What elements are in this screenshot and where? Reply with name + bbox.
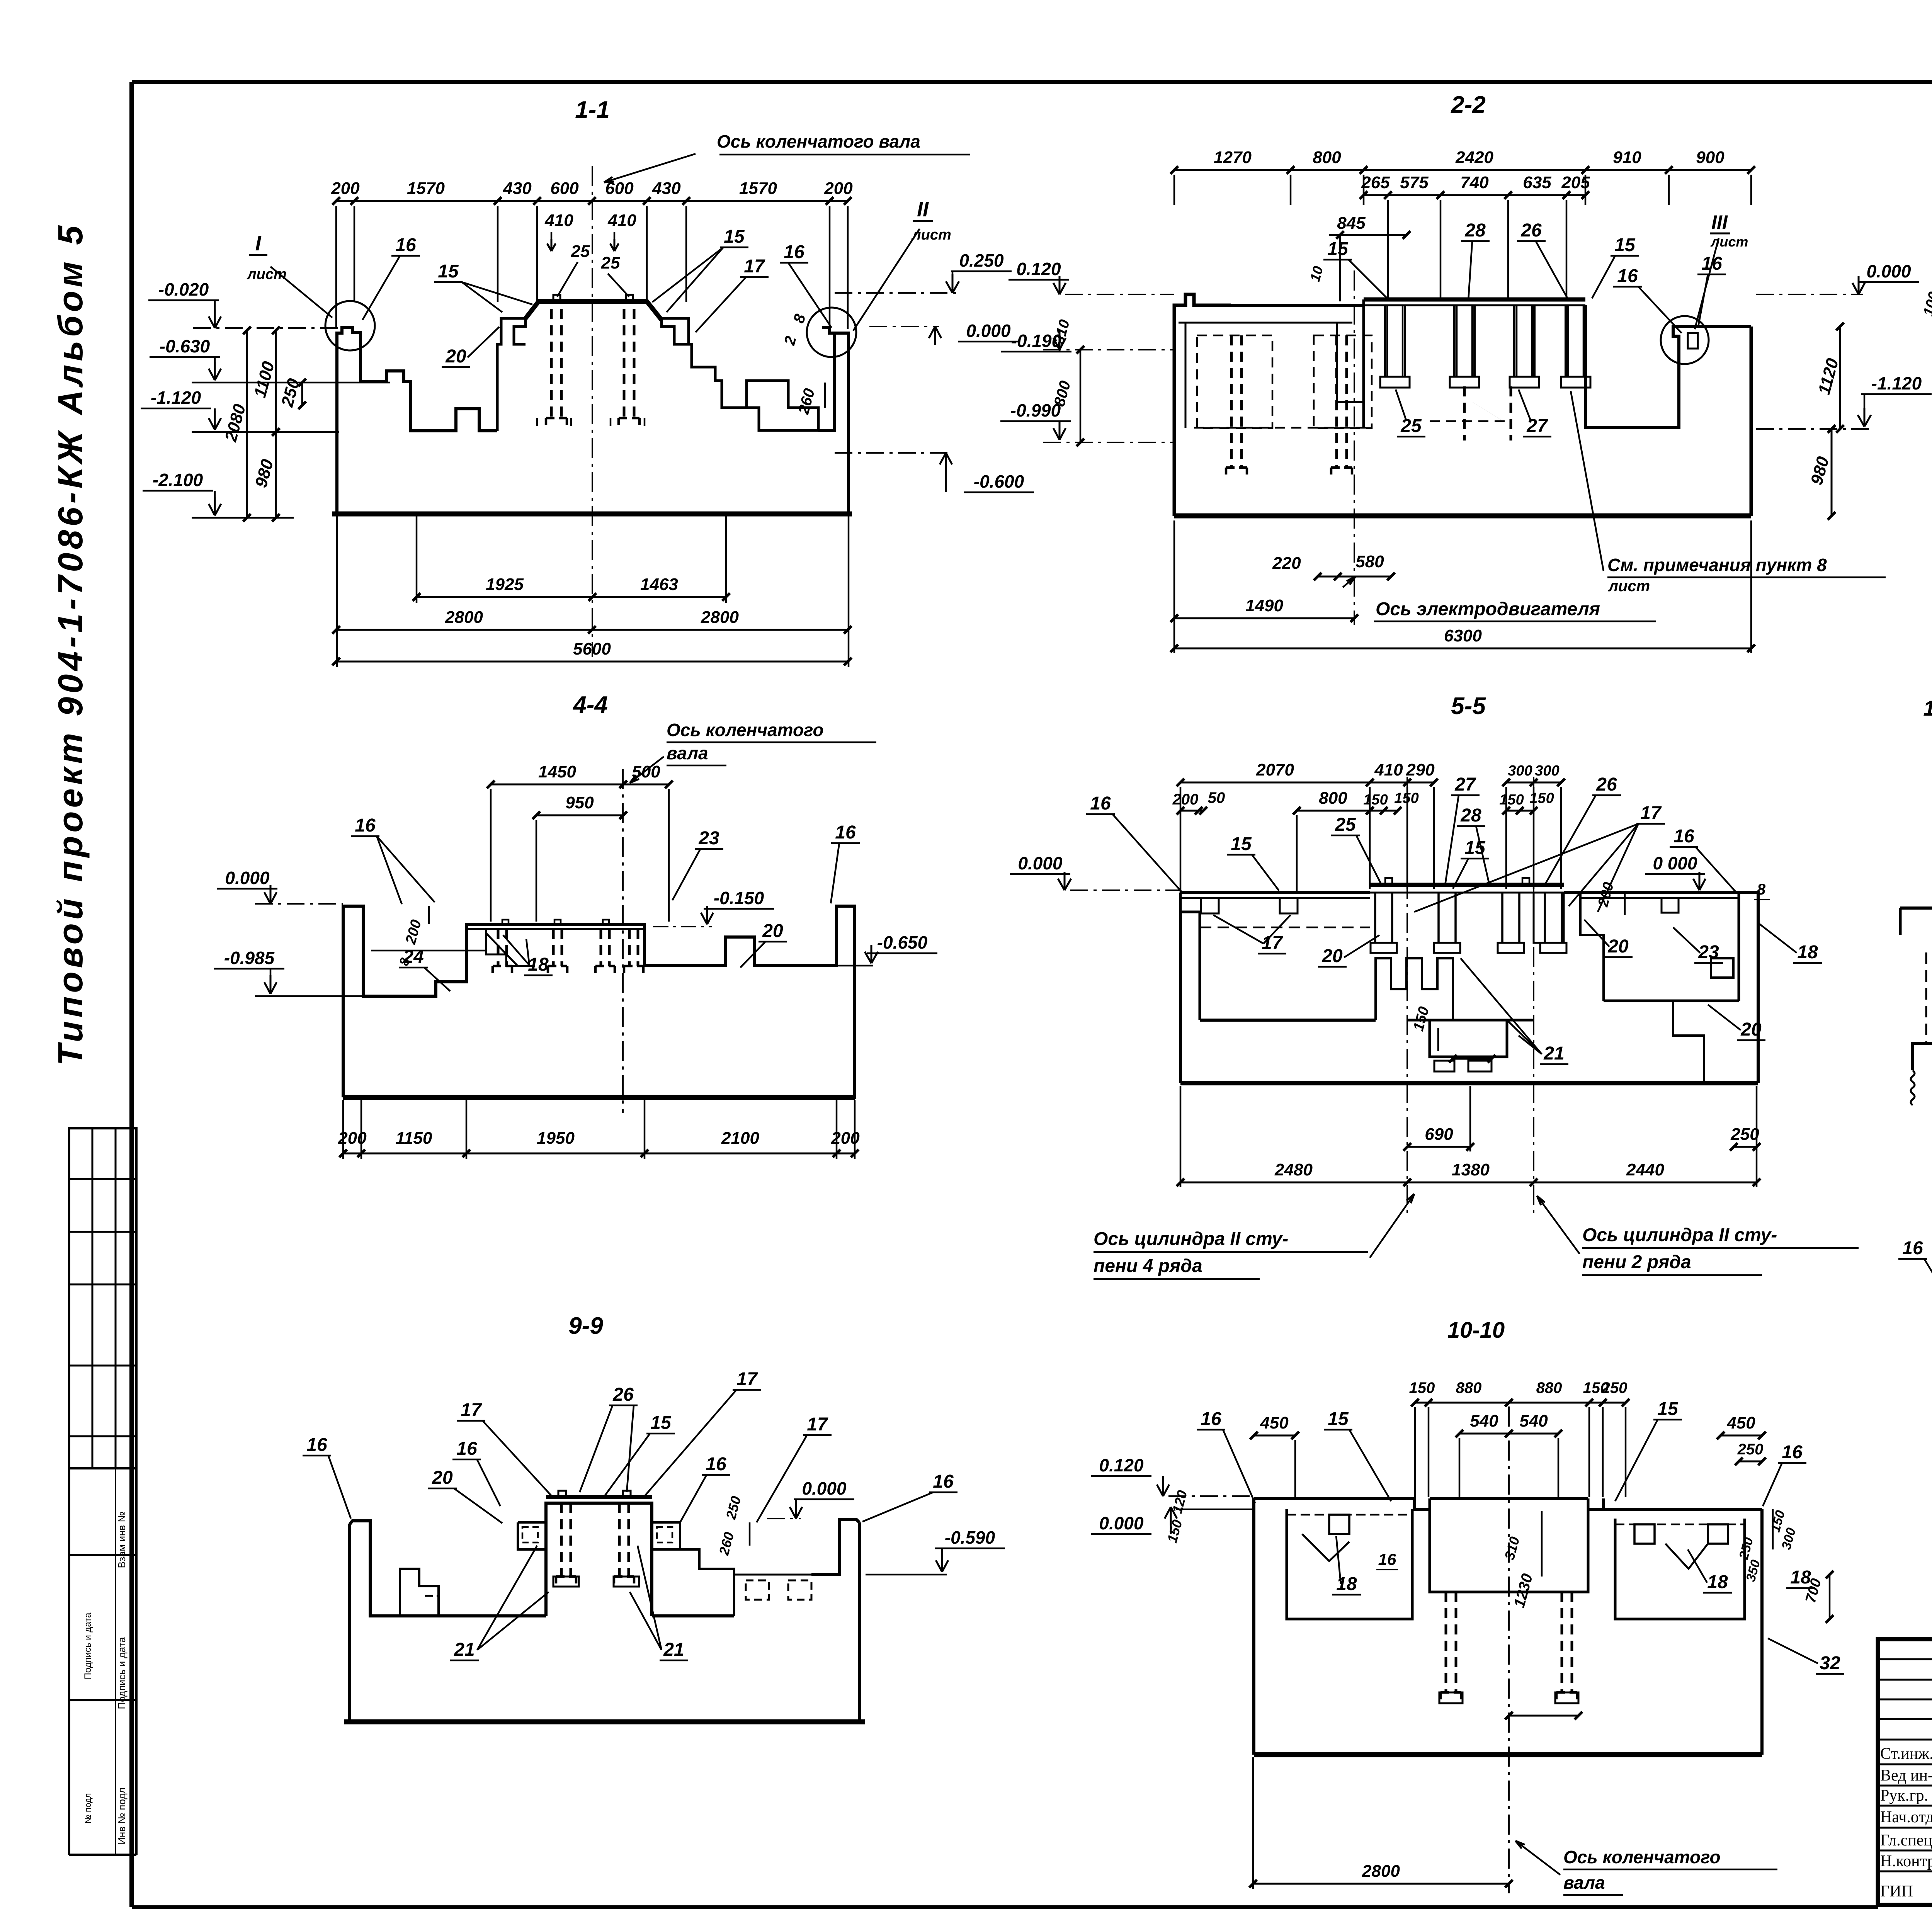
section 9-9 center pedestal [546,1503,652,1616]
svg-text:-0.985: -0.985 [224,948,275,968]
svg-text:16: 16 [1902,1238,1923,1259]
svg-text:410: 410 [544,211,573,230]
section 5-5 right machine bay [1534,893,1564,943]
svg-text:Инв № подл: Инв № подл [116,1787,128,1845]
section 12-12 outline [1900,905,1932,1070]
svg-text:-0.650: -0.650 [877,932,928,952]
svg-text:25: 25 [601,253,620,272]
svg-text:III: III [1711,211,1728,233]
svg-text:27: 27 [1454,774,1476,795]
section 5-5 top dims row2 [1180,810,1203,812]
svg-text:250: 250 [1601,1379,1628,1396]
svg-text:2420: 2420 [1455,148,1493,167]
svg-text:880: 880 [1536,1379,1562,1396]
svg-text:21: 21 [663,1639,684,1660]
svg-text:12-12: 12-12 [1923,696,1932,720]
title block outer box [1878,1639,1932,1905]
svg-text:20: 20 [445,346,466,367]
section 2-2 machine top plate [1364,298,1585,302]
svg-text:№ подл: № подл [83,1793,93,1823]
svg-text:2480: 2480 [1274,1160,1313,1179]
svg-text:845: 845 [1337,214,1366,233]
svg-text:150: 150 [1409,1379,1435,1396]
svg-text:16: 16 [1617,266,1638,286]
section 4-4 top dims [491,784,669,786]
svg-text:16: 16 [1201,1409,1221,1429]
svg-text:0.000: 0.000 [966,321,1011,341]
svg-text:1-1: 1-1 [575,97,610,123]
left margin stamp cells [69,1467,136,1469]
section 1-1 crankshaft axis line [592,166,593,657]
svg-text:300: 300 [1535,763,1559,779]
section 5-5 machine bolt columns [1374,893,1376,943]
svg-text:0 000: 0 000 [1653,853,1697,873]
svg-text:16: 16 [1782,1442,1803,1463]
svg-text:205: 205 [1561,173,1590,192]
svg-text:2100: 2100 [721,1129,759,1148]
section 2-2 left dashed pits [1197,335,1272,428]
svg-text:15: 15 [1614,235,1636,255]
svg-text:0.250: 0.250 [959,250,1004,270]
section 10-10 top dims row2 [1459,1433,1558,1435]
svg-text:16: 16 [456,1439,477,1459]
svg-text:6300: 6300 [1444,626,1482,645]
svg-text:пени 4 ряда: пени 4 ряда [1094,1256,1202,1276]
section 10-10 main outline [1254,1498,1430,1755]
svg-text:5600: 5600 [573,639,611,658]
svg-text:0.000: 0.000 [225,868,270,888]
section 4-4 funnel hatch left [486,933,535,966]
svg-text:-2.100: -2.100 [153,470,203,490]
section 4-4 axis line [622,769,624,1113]
svg-text:250: 250 [1737,1441,1764,1458]
section 5-5 right outer wall [1739,893,1758,1083]
section 12-12 break lines [1911,1070,1915,1105]
svg-text:220: 220 [1272,554,1301,573]
svg-text:600: 600 [550,179,579,198]
svg-text:32: 32 [1820,1653,1840,1673]
svg-text:580: 580 [1355,552,1384,571]
svg-text:Ст.инж.: Ст.инж. [1880,1745,1932,1763]
svg-text:10-10: 10-10 [1447,1318,1505,1343]
section 10-10 top dims row1 [1415,1402,1626,1404]
svg-text:См. примечания пункт 8: См. примечания пункт 8 [1607,555,1827,575]
svg-text:15: 15 [1328,1409,1349,1429]
section 1-1 right stepped blocks [689,344,818,430]
svg-text:0.000: 0.000 [1866,261,1911,281]
svg-text:26: 26 [1520,220,1542,241]
svg-text:28: 28 [1460,805,1481,826]
svg-text:540: 540 [1519,1412,1548,1430]
section 4-4 bottom slab thick line [343,1095,855,1100]
section 1-1 detail circle left [325,301,375,350]
svg-text:Нач.отд.: Нач.отд. [1880,1808,1932,1826]
svg-text:Ось цилиндра II сту-: Ось цилиндра II сту- [1094,1229,1288,1249]
svg-text:Ось коленчатого: Ось коленчатого [667,720,824,740]
svg-text:265: 265 [1361,173,1390,192]
section 2-2 second dimension chain [1364,194,1585,196]
svg-text:5-5: 5-5 [1451,693,1486,719]
svg-text:-0.590: -0.590 [945,1527,995,1548]
section 2-2 outline [1174,294,1231,516]
svg-text:800: 800 [1313,148,1341,167]
section 1-1 main outline left wall [337,328,497,514]
svg-text:0.000: 0.000 [802,1478,847,1498]
svg-text:2800: 2800 [445,608,483,627]
section 1-1 bottom dimension chains [336,516,338,667]
section 1-1 detail circle right [807,308,856,357]
section 1-1 machine pedestal outline [497,318,526,431]
svg-text:1570: 1570 [407,179,445,198]
svg-text:1950: 1950 [537,1129,575,1148]
svg-text:4-4: 4-4 [572,692,608,718]
section 5-5 axes [1406,777,1408,1213]
svg-text:вала: вала [1563,1872,1605,1893]
svg-text:Н.контр.: Н.контр. [1880,1852,1932,1870]
section 10-10 dim 2800 [1253,1883,1509,1885]
section 5-5 right pads [1711,958,1733,978]
section 5-5 center pedestal [1430,1020,1507,1057]
svg-text:410: 410 [607,211,636,230]
svg-text:16: 16 [1378,1550,1396,1568]
svg-text:740: 740 [1460,173,1489,192]
svg-text:575: 575 [1400,173,1429,192]
svg-text:150: 150 [1499,792,1524,808]
section 10-10 dim 450 right [1721,1435,1762,1437]
svg-text:200: 200 [831,1129,860,1148]
section 2-2 bolt sleeve columns [1384,305,1386,377]
svg-text:690: 690 [1425,1125,1453,1144]
svg-text:880: 880 [1456,1379,1482,1396]
svg-text:1463: 1463 [640,575,678,594]
svg-text:16: 16 [706,1454,726,1475]
svg-text:15: 15 [650,1413,672,1433]
svg-text:910: 910 [1613,148,1641,167]
section 5-5 right bay floor and wall [1604,1000,1739,1002]
svg-text:26: 26 [1596,774,1617,795]
svg-text:20: 20 [1740,1019,1762,1040]
svg-text:21: 21 [1543,1043,1564,1064]
svg-text:200: 200 [331,179,360,198]
section 9-9 bottom slab [344,1719,865,1725]
svg-text:1270: 1270 [1214,148,1252,167]
svg-text:-0.600: -0.600 [974,471,1024,492]
section 1-1 top bolts [553,295,560,301]
svg-text:16: 16 [784,242,804,262]
section 10-10 left bay [1287,1509,1412,1619]
svg-text:900: 900 [1696,148,1725,167]
section 10-10 axis [1508,1406,1510,1893]
left margin attachment table [69,1128,136,1468]
svg-text:Ось коленчатого: Ось коленчатого [1563,1847,1721,1867]
svg-text:17: 17 [1640,803,1662,823]
svg-text:300: 300 [1508,763,1532,779]
svg-text:I: I [255,232,261,255]
section 5-5 right apron [1564,891,1739,894]
sheet border frame [132,80,1932,84]
svg-text:24: 24 [403,947,423,967]
section 5-5 machine top plate [1370,883,1564,887]
section 9-9 right cascade [680,1549,734,1616]
section 2-2 left interior ledge [1179,322,1352,324]
section 2-2 bottom slab [1174,514,1751,519]
section 1-1 anchor bolt channels [550,309,553,418]
section 10-10 bottom slab [1254,1752,1762,1757]
svg-text:1925: 1925 [486,575,524,594]
svg-text:25: 25 [1400,416,1422,436]
section 2-2 right bay outline [1585,305,1685,428]
svg-text:15: 15 [1657,1399,1679,1419]
svg-text:Подпись и дата: Подпись и дата [83,1612,93,1679]
svg-text:17: 17 [807,1414,828,1435]
section 10-10 dim 450 left [1254,1435,1295,1437]
svg-text:0.120: 0.120 [1099,1455,1144,1475]
section 5-5 top dims row1 [1180,782,1434,784]
svg-text:Ось цилиндра II сту-: Ось цилиндра II сту- [1582,1225,1777,1245]
svg-text:вала: вала [667,743,708,763]
svg-text:2800: 2800 [1362,1862,1400,1881]
svg-text:150: 150 [1363,792,1388,808]
section 2-2 dim 6300 [1174,648,1751,650]
section 4-4 machine block top plate [466,928,645,930]
svg-text:430: 430 [503,179,532,198]
svg-text:16: 16 [306,1435,327,1455]
svg-text:540: 540 [1470,1412,1498,1430]
svg-text:Вед ин-.: Вед ин-. [1880,1767,1932,1784]
section 9-9 pedestal bolts [560,1503,563,1577]
svg-text:800: 800 [1319,789,1347,808]
svg-text:2800: 2800 [701,608,739,627]
svg-text:635: 635 [1523,173,1551,192]
svg-text:пени 2 ряда: пени 2 ряда [1582,1252,1691,1272]
svg-text:450: 450 [1260,1413,1289,1432]
svg-text:50: 50 [1208,789,1225,806]
svg-text:ГИП: ГИП [1880,1883,1913,1900]
svg-text:20: 20 [1321,946,1343,966]
svg-text:16: 16 [1673,826,1694,847]
svg-text:500: 500 [632,762,660,781]
section 9-9 left floor blocks [400,1569,439,1616]
svg-text:23: 23 [698,828,719,849]
svg-text:430: 430 [652,179,681,198]
svg-text:17: 17 [461,1400,482,1420]
svg-text:250: 250 [1730,1125,1759,1144]
svg-text:2440: 2440 [1626,1160,1664,1179]
section 10-10 dim 250 right [1739,1461,1762,1463]
svg-text:20: 20 [1607,936,1629,957]
svg-text:18: 18 [528,954,549,975]
section 2-2 motor pit step [1337,323,1364,428]
svg-text:II: II [917,198,929,221]
svg-text:1150: 1150 [396,1129,432,1148]
svg-text:200: 200 [338,1129,367,1148]
svg-text:Типовой проект 904-1-7086-КЖ: Типовой проект 904-1-7086-КЖ Альбом 5 [51,222,90,1066]
svg-text:0.120: 0.120 [1016,259,1061,279]
section 5-5 bottom chain [1180,1182,1757,1184]
section 9-9 outer tub outline [350,1521,400,1722]
section 5-5 dims 690 250 [1407,1146,1470,1148]
svg-text:26: 26 [612,1384,634,1405]
svg-text:лист: лист [911,227,951,243]
section 5-5 lower-right ledge [1673,1001,1704,1083]
section 2-2 right vertical dims [1839,327,1841,429]
title block left grid rows [1878,1658,1932,1660]
svg-text:28: 28 [1464,220,1486,241]
svg-text:450: 450 [1726,1413,1755,1432]
svg-text:-1.120: -1.120 [1871,373,1922,393]
section 1-1 left vertical dims [246,330,248,518]
section 1-1 right wall [835,333,849,514]
svg-text:17: 17 [744,256,765,277]
section 5-5 left apron pads [1201,898,1219,913]
svg-text:15: 15 [438,261,459,282]
svg-text:410: 410 [1374,760,1403,779]
section 1-1 bottom slab [332,512,852,517]
svg-text:17: 17 [736,1369,758,1389]
section 2-2 top dimension chain [1174,169,1751,171]
svg-text:2-2: 2-2 [1451,92,1486,118]
svg-text:16: 16 [395,235,416,255]
section 10-10 right bay [1615,1519,1745,1619]
svg-text:290: 290 [1406,760,1435,779]
svg-text:Рук.гр.: Рук.гр. [1880,1787,1928,1804]
svg-text:950: 950 [565,793,594,812]
svg-text:0.000: 0.000 [1018,853,1063,873]
svg-text:Гл.спец.: Гл.спец. [1880,1832,1932,1849]
section 1-1 top dimension chain [336,200,848,202]
svg-text:200: 200 [1172,791,1199,808]
section 2-2 detail circle [1661,316,1709,364]
svg-text:2070: 2070 [1256,760,1294,779]
svg-text:20: 20 [432,1468,453,1488]
svg-text:-0.020: -0.020 [158,279,209,299]
svg-text:23: 23 [1698,942,1719,963]
svg-text:15: 15 [1231,834,1252,854]
svg-text:21: 21 [454,1639,474,1660]
section 9-9 floor [400,1614,546,1617]
svg-text:16: 16 [1090,793,1111,814]
section 5-5 bottom slab [1180,1081,1758,1085]
svg-text:Подпись и дата: Подпись и дата [116,1637,128,1709]
svg-text:200: 200 [824,179,853,198]
svg-text:16: 16 [355,815,376,836]
svg-text:1570: 1570 [739,179,777,198]
section 4-4 bottom chain [342,1100,344,1159]
svg-text:20: 20 [762,921,783,941]
svg-text:18: 18 [1707,1572,1728,1592]
svg-text:1450: 1450 [538,762,576,781]
svg-text:-0.630: -0.630 [160,336,210,356]
svg-text:-0.150: -0.150 [714,888,764,908]
svg-text:Взам инв №: Взам инв № [116,1512,128,1568]
section 2-2 dim 1490 [1174,617,1354,619]
section 2-2 anchor plate dashes [1430,420,1507,422]
svg-text:9-9: 9-9 [568,1313,603,1339]
section 2-2 right bay inner post [1688,333,1698,349]
svg-text:16: 16 [835,822,856,843]
section 10-10 center pit bolts [1445,1592,1447,1692]
svg-text:лист: лист [1608,578,1650,595]
svg-text:18: 18 [1797,942,1818,963]
svg-text:600: 600 [605,179,634,198]
section 5-5 left apron outline [1180,891,1370,894]
svg-text:1490: 1490 [1245,596,1283,615]
section 5-5 left bay floor [1200,1019,1376,1022]
section 9-9 pedestal side pads [518,1522,546,1549]
svg-text:15: 15 [724,226,745,247]
svg-text:Ось коленчатого вала: Ось коленчатого вала [717,131,920,151]
svg-text:Ось электродвигателя: Ось электродвигателя [1376,599,1600,619]
section 2-2 motor axis [1354,270,1355,625]
svg-text:-1.120: -1.120 [151,388,201,408]
svg-text:25: 25 [571,242,590,261]
section 5-5 crenellated base [1376,958,1453,1020]
svg-text:25: 25 [1335,815,1356,835]
section 4-4 machine interior details [497,929,500,966]
svg-text:0.000: 0.000 [1099,1513,1144,1533]
section 4-4 main outline [343,906,855,1097]
svg-text:15: 15 [1464,838,1486,858]
svg-text:16: 16 [933,1471,954,1492]
svg-text:1380: 1380 [1452,1160,1490,1179]
svg-text:15: 15 [1327,239,1349,259]
